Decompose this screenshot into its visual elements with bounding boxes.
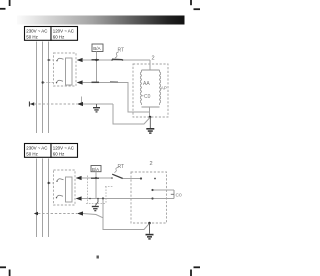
upper rating box 120V 60Hz: [51, 27, 78, 41]
ground G3: [92, 199, 99, 211]
svg-text:B/A: B/A: [93, 46, 101, 51]
contact hook upper: [57, 179, 64, 181]
timer/selector box T2 (dashed): [54, 170, 76, 205]
svg-text:230V ~ AC: 230V ~ AC: [26, 28, 47, 33]
upper rating box 230V 50Hz: [25, 27, 52, 41]
motor bottom stub: [149, 107, 151, 117]
motor box M2 (dashed): [131, 172, 167, 223]
wire L3 vertical: [48, 42, 50, 134]
wire L2 vertical: [42, 42, 44, 134]
capacitor C0: [173, 190, 175, 199]
wire line N (top) to thermostat: [83, 59, 151, 61]
terminal dot: [140, 177, 142, 179]
wire L2 vertical: [42, 159, 44, 238]
ground G1: [93, 104, 100, 113]
svg-text:RT: RT: [118, 164, 125, 170]
main wire to capacitor: [82, 198, 175, 200]
upper schematic: [29, 42, 168, 134]
wire corner to motor: [149, 60, 151, 70]
return wire with diagonal: [113, 104, 150, 124]
wire into motor box: [123, 178, 141, 180]
svg-text:60 Hz: 60 Hz: [53, 151, 64, 156]
node on wire L3: [47, 59, 50, 61]
svg-text:AP: AP: [161, 86, 167, 91]
stub above connector: [81, 97, 83, 105]
motor box M1 (dashed): [133, 64, 168, 117]
connector arrow on supply: [77, 211, 83, 215]
junction dot: [95, 177, 97, 179]
node on wire L2: [42, 81, 44, 83]
terminal box B/A: [92, 44, 103, 52]
svg-text:C0: C0: [144, 94, 151, 100]
timer cam block: [66, 177, 73, 202]
wire L1 vertical: [36, 42, 38, 134]
supply wire solid part: [83, 214, 103, 218]
stem from B/A box: [95, 172, 97, 199]
svg-text:120V ~ AC: 120V ~ AC: [53, 145, 74, 150]
supply dashed wire: [38, 213, 77, 215]
ground G2: [146, 117, 154, 134]
svg-text:230V ~ AC: 230V ~ AC: [26, 145, 47, 150]
supply terminal symbol: [28, 102, 30, 107]
supply terminal arrow: [34, 212, 38, 215]
lower rating box 230V 50Hz: [25, 144, 52, 158]
stem from B/A box: [96, 52, 98, 83]
door switch contacts: [89, 198, 91, 200]
svg-text:60 Hz: 60 Hz: [53, 34, 64, 39]
crop mark top-right: [191, 0, 200, 9]
terminal dot inner: [154, 178, 156, 180]
svg-text:50 Hz: 50 Hz: [26, 151, 37, 156]
wire from lower output to motor: [83, 83, 150, 113]
contact blob: [91, 177, 99, 179]
page number: [97, 256, 99, 259]
junction dot: [102, 197, 104, 199]
svg-text:RT: RT: [118, 48, 125, 54]
crop mark bottom-left: [0, 267, 10, 276]
node on wire L3: [48, 182, 50, 184]
RT leader: [115, 52, 119, 58]
header gradient bar: [17, 16, 185, 25]
crop mark top-left: [0, 0, 10, 9]
svg-text:C0: C0: [176, 192, 182, 198]
label C0: [142, 95, 144, 97]
thermostat RT blade (closed): [112, 58, 123, 60]
wire to thermostat: [82, 177, 113, 179]
terminal box B/A: [91, 166, 101, 172]
mains supply wire (solid part): [83, 103, 113, 105]
RT leader: [115, 168, 119, 173]
timer/selector box T1 (dashed): [54, 53, 77, 86]
wire L1 vertical: [36, 159, 38, 238]
stator winding coil: [142, 70, 160, 107]
svg-text:2: 2: [152, 56, 155, 62]
connector arrow upper output: [77, 58, 83, 62]
capacitor upper wire: [153, 189, 175, 191]
supply dashed wire: [30, 103, 77, 105]
junction node: [149, 116, 152, 119]
svg-text:B/A: B/A: [92, 167, 99, 172]
junction node: [148, 222, 151, 225]
connector arrow lower output: [76, 196, 82, 200]
connector arrow on supply: [77, 102, 83, 106]
crop mark bottom-right: [191, 267, 200, 276]
junction contact blob: [92, 59, 100, 61]
contact hook lower: [57, 80, 64, 82]
contact hook lower: [57, 195, 64, 197]
svg-text:AA: AA: [143, 81, 150, 87]
door switch contact blob: [92, 81, 100, 83]
lower rating box 120V 60Hz: [51, 144, 78, 158]
connector arrow lower output: [77, 80, 83, 84]
contact hook upper: [57, 58, 64, 60]
wire L3 vertical: [48, 159, 50, 238]
timer cam block: [66, 58, 73, 85]
connector arrow upper output: [76, 176, 82, 180]
return wire down and across: [103, 199, 150, 230]
svg-text:2: 2: [150, 161, 153, 167]
enclosure dashed edge: [87, 176, 89, 204]
lower schematic: [34, 159, 182, 240]
ground G4: [146, 223, 154, 240]
sensor dashed outline: [86, 187, 113, 204]
svg-text:50 Hz: 50 Hz: [26, 34, 37, 39]
svg-text:120V ~ AC: 120V ~ AC: [53, 28, 74, 33]
thermostat RT blade (open): [112, 174, 123, 178]
